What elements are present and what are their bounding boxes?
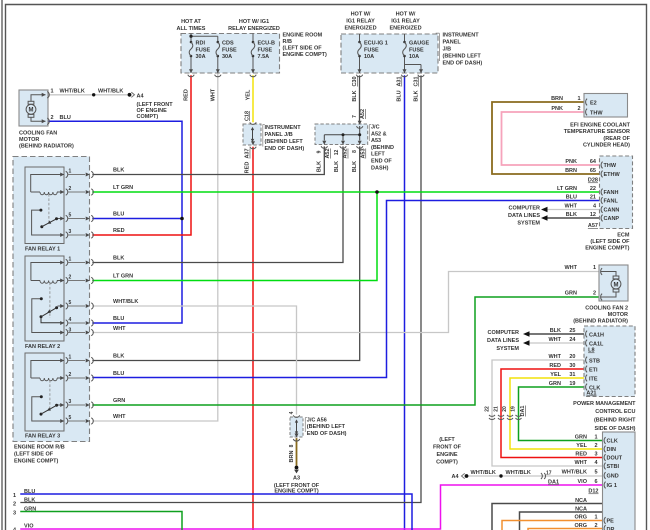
wire BLK CA1H stub bbox=[530, 333, 584, 335]
svg-text:A52: A52 bbox=[325, 148, 331, 158]
svg-text:FAN RELAY 2: FAN RELAY 2 bbox=[25, 344, 60, 350]
svg-text:D28: D28 bbox=[588, 178, 598, 184]
svg-text:1: 1 bbox=[594, 434, 597, 440]
svg-text:ETI: ETI bbox=[589, 367, 598, 373]
svg-text:WHT: WHT bbox=[113, 414, 126, 420]
junction connector A56 bbox=[290, 415, 347, 441]
connector A4 bottom with WHT/BLK bbox=[451, 470, 559, 486]
svg-text:1: 1 bbox=[51, 89, 54, 95]
svg-text:A31: A31 bbox=[397, 76, 403, 86]
wire PNK sensor THW to ECM THW bbox=[502, 112, 601, 165]
wire BLK NCA row upper bbox=[492, 504, 603, 530]
wire BLK J/C pin8 to fan relay3 pin1 bbox=[93, 147, 360, 361]
svg-text:RED: RED bbox=[113, 228, 125, 234]
svg-text:ENERGIZED: ENERGIZED bbox=[389, 26, 421, 32]
svg-text:8: 8 bbox=[289, 444, 295, 447]
wire RED RDI fuse to fan relay1 pin3 bbox=[93, 76, 191, 235]
wire WHT/BLK A4 to GND pin5 bbox=[469, 475, 603, 477]
svg-text:BLU: BLU bbox=[566, 195, 577, 201]
svg-text:64: 64 bbox=[590, 159, 597, 165]
svg-text:YEL: YEL bbox=[550, 372, 561, 378]
svg-text:30: 30 bbox=[569, 363, 575, 369]
wire BLU bottom row 1 bbox=[21, 494, 412, 530]
svg-text:A4: A4 bbox=[137, 94, 145, 100]
svg-text:3: 3 bbox=[69, 399, 72, 405]
svg-text:19: 19 bbox=[569, 381, 575, 387]
wire BLK J/C pin9 to fan relay1 pin1 bbox=[93, 147, 324, 175]
DA1 in-line connector breaks bbox=[485, 405, 527, 419]
svg-text:10A: 10A bbox=[409, 54, 419, 60]
svg-text:2: 2 bbox=[69, 372, 72, 378]
svg-text:21: 21 bbox=[590, 195, 596, 201]
svg-text:1: 1 bbox=[69, 354, 72, 360]
svg-text:NCA: NCA bbox=[575, 498, 587, 504]
wire BLU A31 gauge fuse down off page bbox=[404, 76, 406, 530]
fuse ECU-B 7.5A bbox=[250, 34, 275, 77]
wire BLK ECU-IG1 fuse to J/C A52 pin7 bbox=[359, 76, 361, 122]
svg-text:WHT/BLK: WHT/BLK bbox=[506, 470, 531, 476]
svg-text:CANP: CANP bbox=[604, 216, 620, 222]
splice on WHT/BLK bbox=[92, 93, 95, 96]
svg-text:END OF DASH): END OF DASH) bbox=[265, 146, 305, 152]
svg-text:5: 5 bbox=[69, 212, 72, 218]
svg-text:31: 31 bbox=[569, 372, 575, 378]
svg-text:COMPT): COMPT) bbox=[137, 114, 159, 120]
svg-text:THW: THW bbox=[590, 110, 603, 116]
svg-text:(LEFT SIDE OF: (LEFT SIDE OF bbox=[590, 239, 630, 245]
svg-text:DOUT: DOUT bbox=[607, 456, 623, 462]
wire RED ETI to DOUT bbox=[501, 369, 603, 458]
svg-text:STBI: STBI bbox=[607, 464, 620, 470]
engine room R/B relay box bbox=[13, 157, 90, 465]
svg-text:24: 24 bbox=[569, 337, 576, 343]
wire BLU FANL: ECM pin21 to relay3 pin2 bbox=[93, 201, 600, 378]
svg-text:FUSE: FUSE bbox=[364, 47, 379, 53]
svg-text:FUSE: FUSE bbox=[222, 47, 237, 53]
svg-text:20: 20 bbox=[569, 354, 575, 360]
svg-text:(LEFT FRONT: (LEFT FRONT bbox=[137, 102, 174, 108]
svg-text:ENERGIZED: ENERGIZED bbox=[344, 26, 376, 32]
wire WHT/BLK relay2 pin5 to J/C A56 bbox=[93, 306, 297, 414]
svg-text:30A: 30A bbox=[196, 54, 206, 60]
svg-text:RED: RED bbox=[245, 162, 251, 174]
svg-text:IG 1: IG 1 bbox=[607, 483, 617, 489]
svg-text:CONTROL ECU: CONTROL ECU bbox=[595, 409, 635, 415]
svg-text:RED: RED bbox=[184, 89, 190, 101]
svg-text:ITE: ITE bbox=[589, 376, 598, 382]
ECM box bbox=[585, 156, 632, 252]
svg-text:1: 1 bbox=[594, 514, 597, 520]
svg-text:OF ENGINE: OF ENGINE bbox=[137, 108, 168, 114]
svg-text:(BEHIND LEFT: (BEHIND LEFT bbox=[443, 53, 482, 59]
svg-text:FANL: FANL bbox=[604, 199, 619, 205]
svg-text:PANEL J/B: PANEL J/B bbox=[265, 132, 293, 138]
junction dot green main / relay2 branch bbox=[375, 190, 379, 194]
svg-text:FAN RELAY 3: FAN RELAY 3 bbox=[25, 434, 60, 440]
svg-text:GRN: GRN bbox=[565, 291, 577, 297]
svg-text:2: 2 bbox=[69, 274, 72, 280]
svg-text:DATA LINES: DATA LINES bbox=[508, 213, 540, 219]
svg-text:3: 3 bbox=[594, 451, 597, 457]
svg-text:1: 1 bbox=[577, 96, 580, 102]
svg-text:22: 22 bbox=[485, 406, 491, 412]
svg-text:8: 8 bbox=[352, 150, 358, 153]
svg-text:E2: E2 bbox=[590, 100, 597, 106]
svg-text:ORG: ORG bbox=[574, 514, 587, 520]
svg-text:19: 19 bbox=[511, 406, 517, 412]
svg-text:7: 7 bbox=[352, 115, 358, 118]
power management control ECU box bbox=[573, 326, 636, 432]
svg-text:PNK: PNK bbox=[565, 159, 577, 165]
svg-text:A52: A52 bbox=[360, 109, 366, 119]
svg-text:CA1L: CA1L bbox=[589, 341, 604, 347]
svg-text:TEMPERATURE SENSOR: TEMPERATURE SENSOR bbox=[564, 129, 630, 135]
svg-text:THW: THW bbox=[604, 163, 617, 169]
wire WHT CDS fuse to fan relay3 pin5 bbox=[93, 73, 218, 421]
svg-text:2: 2 bbox=[69, 186, 72, 192]
svg-text:WHT: WHT bbox=[564, 265, 577, 271]
svg-text:ECM: ECM bbox=[617, 233, 630, 239]
computer data lines system (ECM) bbox=[508, 205, 547, 226]
svg-text:ENGINE COMPT): ENGINE COMPT) bbox=[14, 458, 58, 464]
svg-text:COMPUTER: COMPUTER bbox=[488, 330, 520, 336]
svg-text:ENGINE COMPT): ENGINE COMPT) bbox=[283, 52, 327, 58]
svg-text:ENGINE ROOM R/B: ENGINE ROOM R/B bbox=[14, 444, 65, 450]
wire RED A37 down off page bbox=[252, 148, 254, 530]
svg-text:BLK: BLK bbox=[550, 328, 561, 334]
svg-text:WHT/BLK: WHT/BLK bbox=[471, 470, 496, 476]
svg-text:YEL: YEL bbox=[246, 89, 252, 100]
fuse GAUGE 10A bbox=[401, 34, 429, 77]
svg-text:WHT: WHT bbox=[564, 204, 577, 210]
svg-text:ETHW: ETHW bbox=[604, 172, 621, 178]
svg-text:ENGINE COMPT): ENGINE COMPT) bbox=[274, 489, 318, 495]
svg-text:BLK: BLK bbox=[566, 212, 577, 218]
svg-text:10A: 10A bbox=[364, 54, 374, 60]
svg-text:2: 2 bbox=[51, 115, 54, 121]
wire WHT relay2 pin3 to cooling fan2 motor pin1 bbox=[93, 272, 599, 333]
svg-text:IG1 RELAY: IG1 RELAY bbox=[391, 19, 420, 25]
svg-text:DIN: DIN bbox=[607, 447, 617, 453]
fan relay 2 bbox=[25, 256, 93, 350]
svg-text:LT GRN: LT GRN bbox=[557, 186, 577, 192]
svg-text:DATA LINES: DATA LINES bbox=[487, 338, 519, 344]
svg-text:(BEHIND RIGHT: (BEHIND RIGHT bbox=[594, 418, 636, 424]
wire BLK NCA row lower bbox=[520, 512, 603, 530]
svg-text:ALL TIMES: ALL TIMES bbox=[177, 26, 206, 32]
svg-text:CYLINDER HEAD): CYLINDER HEAD) bbox=[583, 143, 630, 149]
svg-text:J/C A56: J/C A56 bbox=[307, 418, 327, 424]
svg-text:BRN: BRN bbox=[289, 451, 295, 463]
svg-text:C18: C18 bbox=[244, 111, 250, 121]
svg-text:FAN RELAY 1: FAN RELAY 1 bbox=[25, 247, 60, 253]
svg-text:VIO: VIO bbox=[24, 524, 34, 530]
svg-text:INSTRUMENT: INSTRUMENT bbox=[265, 125, 302, 131]
fuse ECU-IG 1 10A bbox=[356, 34, 388, 77]
svg-text:END OF: END OF bbox=[371, 159, 392, 165]
svg-text:ORG: ORG bbox=[574, 523, 587, 529]
svg-text:HOT W/ IG1: HOT W/ IG1 bbox=[239, 19, 269, 25]
wire BRN J/C A56 to A3 ground bbox=[296, 439, 298, 465]
svg-text:WHT/BLK: WHT/BLK bbox=[60, 89, 85, 95]
svg-text:9: 9 bbox=[317, 150, 323, 153]
svg-text:GRN: GRN bbox=[549, 381, 561, 387]
svg-text:DA1: DA1 bbox=[548, 480, 559, 486]
svg-text:17: 17 bbox=[546, 471, 552, 477]
svg-text:25: 25 bbox=[569, 328, 575, 334]
svg-text:WHT: WHT bbox=[113, 326, 126, 332]
svg-text:WHT: WHT bbox=[548, 354, 561, 360]
svg-text:MOTOR: MOTOR bbox=[19, 137, 39, 143]
svg-text:1: 1 bbox=[69, 256, 72, 262]
connector A4 top bbox=[128, 92, 135, 97]
svg-text:2: 2 bbox=[577, 106, 580, 112]
svg-text:RELAY ENERGIZED: RELAY ENERGIZED bbox=[228, 26, 280, 32]
svg-text:BLK: BLK bbox=[317, 161, 323, 172]
svg-text:FUSE: FUSE bbox=[196, 47, 211, 53]
svg-text:BLK: BLK bbox=[334, 161, 340, 172]
svg-text:BLU: BLU bbox=[113, 371, 124, 377]
svg-text:CDS: CDS bbox=[222, 41, 234, 47]
svg-text:BRN: BRN bbox=[551, 96, 563, 102]
svg-text:CA1H: CA1H bbox=[589, 332, 604, 338]
svg-text:FUSE: FUSE bbox=[409, 47, 424, 53]
svg-text:A57: A57 bbox=[588, 223, 598, 229]
svg-text:A37: A37 bbox=[245, 148, 251, 158]
svg-text:R/B: R/B bbox=[283, 39, 293, 45]
svg-text:PE: PE bbox=[607, 519, 615, 525]
wire LT GRN main: relay1 pin2 to ECM FANH bbox=[93, 191, 600, 193]
svg-text:A52: A52 bbox=[343, 148, 349, 158]
wire BLU motor pin2 to junction to relay1 pin5 and relay2 pin4 bbox=[48, 121, 182, 323]
svg-text:WHT/BLK: WHT/BLK bbox=[98, 89, 123, 95]
cooling fan motor M1 bbox=[19, 89, 74, 150]
svg-text:STB: STB bbox=[589, 358, 600, 364]
svg-text:BLU: BLU bbox=[60, 115, 71, 121]
junction dot blue motor/relay1 pin5/relay2 pin4 bbox=[180, 217, 184, 221]
svg-text:GRN: GRN bbox=[113, 398, 125, 404]
svg-text:3: 3 bbox=[69, 327, 72, 333]
ground point A3 bbox=[294, 466, 299, 474]
svg-text:VIO: VIO bbox=[578, 479, 588, 485]
svg-text:IG1 RELAY: IG1 RELAY bbox=[346, 19, 375, 25]
fan relay 1 bbox=[25, 167, 93, 253]
svg-text:INSTRUMENT: INSTRUMENT bbox=[443, 32, 480, 38]
svg-text:4: 4 bbox=[69, 317, 72, 323]
svg-text:FUSE: FUSE bbox=[258, 47, 273, 53]
svg-text:2: 2 bbox=[594, 443, 597, 449]
svg-text:HOT W/: HOT W/ bbox=[351, 12, 371, 18]
svg-text:LT GRN: LT GRN bbox=[113, 185, 133, 191]
engine room R/B fuse block box bbox=[177, 19, 327, 73]
svg-text:GND: GND bbox=[607, 474, 619, 480]
svg-text:BLK: BLK bbox=[113, 168, 124, 174]
svg-text:COMPUTER: COMPUTER bbox=[509, 205, 541, 211]
svg-text:A53: A53 bbox=[371, 138, 381, 144]
wire BLK C31 gauge fuse to bottom row 2 bbox=[21, 76, 421, 503]
fuse RDI 30A bbox=[188, 34, 218, 77]
wire BRN sensor E2 to ECM ETHW bbox=[492, 102, 600, 174]
svg-text:SYSTEM: SYSTEM bbox=[517, 221, 540, 227]
svg-text:(BEHIND: (BEHIND bbox=[371, 145, 394, 151]
svg-text:SIDE OF DASH): SIDE OF DASH) bbox=[595, 426, 636, 432]
EFI engine coolant temperature sensor bbox=[564, 94, 631, 149]
svg-text:END OF DASH): END OF DASH) bbox=[443, 60, 483, 66]
wire WHT STB to STBI bbox=[492, 360, 603, 466]
svg-text:PNK: PNK bbox=[551, 106, 563, 112]
svg-text:DASH): DASH) bbox=[371, 165, 389, 171]
svg-text:HOT W/: HOT W/ bbox=[396, 12, 416, 18]
svg-text:PANEL: PANEL bbox=[443, 39, 462, 45]
svg-text:END OF DASH): END OF DASH) bbox=[307, 431, 347, 437]
svg-text:J/C: J/C bbox=[371, 125, 380, 131]
svg-text:2: 2 bbox=[594, 523, 597, 529]
svg-text:65: 65 bbox=[590, 168, 596, 174]
svg-text:(LEFT SIDE OF: (LEFT SIDE OF bbox=[283, 46, 323, 52]
svg-text:ENGINE ROOM: ENGINE ROOM bbox=[283, 32, 323, 38]
svg-text:C30: C30 bbox=[352, 76, 358, 86]
cooling fan 2 motor bbox=[573, 265, 628, 325]
svg-text:POWER MANAGEMENT: POWER MANAGEMENT bbox=[573, 401, 636, 407]
wire GRN bottom row 3 bbox=[21, 512, 182, 530]
svg-text:A53: A53 bbox=[361, 148, 367, 158]
wire ORG 2 bbox=[528, 529, 603, 530]
svg-text:BLU: BLU bbox=[113, 316, 124, 322]
svg-text:A3: A3 bbox=[293, 476, 300, 482]
svg-text:1: 1 bbox=[69, 168, 72, 174]
svg-text:WHT: WHT bbox=[548, 337, 561, 343]
fuse CDS 30A bbox=[215, 41, 237, 77]
svg-text:BLK: BLK bbox=[113, 256, 124, 262]
svg-text:5: 5 bbox=[69, 415, 72, 421]
svg-text:3: 3 bbox=[13, 511, 16, 517]
wire BLK J/C pin12 to fan relay2 pin1 bbox=[93, 147, 343, 263]
svg-text:20: 20 bbox=[502, 406, 508, 412]
svg-text:7.5A: 7.5A bbox=[258, 54, 270, 60]
svg-text:BLU: BLU bbox=[397, 90, 403, 101]
svg-text:5: 5 bbox=[594, 469, 597, 475]
svg-text:(BEHIND RADIATOR): (BEHIND RADIATOR) bbox=[573, 319, 628, 325]
svg-text:ECU-B: ECU-B bbox=[258, 41, 275, 47]
svg-text:D12: D12 bbox=[588, 489, 598, 495]
wire YEL ECU-B fuse to instrument panel J/B C18 bbox=[252, 76, 254, 122]
svg-text:22: 22 bbox=[590, 186, 596, 192]
svg-text:12: 12 bbox=[590, 212, 596, 218]
svg-text:FRONT OF: FRONT OF bbox=[433, 445, 462, 451]
svg-text:5: 5 bbox=[69, 300, 72, 306]
wire GRN relay3 pin3 to cooling fan2 motor pin2 bbox=[93, 297, 599, 405]
svg-text:2: 2 bbox=[593, 291, 596, 297]
wire WHT CANN stub bbox=[547, 209, 600, 211]
wire GRN CLK to CLK bbox=[519, 387, 603, 441]
instrument panel J/B pass-through bbox=[243, 122, 304, 152]
wire LT GRN relay2 pin2 branch bbox=[93, 192, 377, 281]
svg-text:BLU: BLU bbox=[113, 212, 124, 218]
svg-text:4: 4 bbox=[289, 411, 295, 414]
fan relay 3 bbox=[25, 353, 93, 440]
wire ORG 1 bbox=[502, 521, 603, 530]
computer data lines system (PM ECU) bbox=[487, 330, 529, 352]
svg-text:BLK: BLK bbox=[413, 90, 419, 101]
svg-text:1: 1 bbox=[593, 265, 596, 271]
svg-text:ENGINE: ENGINE bbox=[436, 452, 457, 458]
svg-text:2: 2 bbox=[13, 502, 16, 508]
svg-text:30A: 30A bbox=[222, 54, 232, 60]
svg-text:ENGINE COMPT): ENGINE COMPT) bbox=[585, 246, 629, 252]
svg-text:(LEFT: (LEFT bbox=[439, 437, 455, 443]
svg-text:HOT AT: HOT AT bbox=[181, 19, 201, 25]
svg-text:YEL: YEL bbox=[576, 443, 587, 449]
wire YEL ITE to DIN bbox=[510, 378, 603, 449]
svg-text:BLK: BLK bbox=[113, 354, 124, 360]
svg-text:A4: A4 bbox=[451, 474, 459, 480]
svg-text:(LEFT SIDE OF: (LEFT SIDE OF bbox=[14, 451, 54, 457]
svg-text:GAUGE: GAUGE bbox=[409, 41, 430, 47]
svg-text:(BEHIND RADIATOR): (BEHIND RADIATOR) bbox=[19, 143, 74, 149]
svg-text:3: 3 bbox=[69, 229, 72, 235]
svg-text:WHT: WHT bbox=[210, 88, 216, 101]
svg-text:(BEHIND LEFT: (BEHIND LEFT bbox=[307, 424, 346, 430]
wire WHT CA1L stub bbox=[530, 342, 584, 344]
svg-text:FANH: FANH bbox=[604, 190, 619, 196]
svg-text:BRN: BRN bbox=[565, 168, 577, 174]
svg-text:BLU: BLU bbox=[24, 489, 35, 495]
svg-text:COMPT): COMPT) bbox=[436, 460, 458, 466]
svg-text:BLK: BLK bbox=[24, 497, 35, 503]
svg-text:C31: C31 bbox=[413, 76, 419, 86]
svg-text:A52 &: A52 & bbox=[371, 131, 387, 137]
svg-text:1: 1 bbox=[13, 493, 16, 499]
junction connector A52 A53 bbox=[315, 121, 394, 172]
svg-text:CLK: CLK bbox=[607, 439, 618, 445]
svg-text:EFI ENGINE COOLANT: EFI ENGINE COOLANT bbox=[570, 123, 631, 129]
svg-text:21: 21 bbox=[494, 406, 500, 412]
svg-text:DA1: DA1 bbox=[520, 405, 526, 416]
svg-text:CANN: CANN bbox=[604, 208, 620, 214]
svg-text:A21: A21 bbox=[586, 391, 596, 397]
svg-text:M: M bbox=[29, 108, 34, 114]
svg-text:12: 12 bbox=[334, 150, 340, 156]
svg-text:GRN: GRN bbox=[575, 434, 587, 440]
wire WHT/BLK cooling fan motor pin1 to A4 bbox=[48, 94, 128, 96]
svg-text:J/B: J/B bbox=[443, 46, 452, 52]
instrument panel J/B fuse box bbox=[341, 12, 482, 73]
svg-text:ECU-IG 1: ECU-IG 1 bbox=[364, 41, 388, 47]
svg-text:RDI: RDI bbox=[196, 41, 206, 47]
fan ECU connector box bbox=[603, 432, 636, 530]
svg-text:SYSTEM: SYSTEM bbox=[496, 346, 519, 352]
svg-text:COOLING FAN 2: COOLING FAN 2 bbox=[585, 306, 628, 312]
svg-text:WHT: WHT bbox=[574, 460, 587, 466]
svg-text:COOLING FAN: COOLING FAN bbox=[19, 130, 57, 136]
svg-text:(BEHIND LEFT: (BEHIND LEFT bbox=[265, 139, 304, 145]
svg-text:NCA: NCA bbox=[575, 506, 587, 512]
wire BLK CANP stub bbox=[547, 217, 600, 219]
svg-text:GRN: GRN bbox=[24, 506, 36, 512]
svg-text:BLK: BLK bbox=[352, 90, 358, 101]
svg-text:WHT/BLK: WHT/BLK bbox=[113, 299, 138, 305]
svg-text:WHT/BLK: WHT/BLK bbox=[562, 469, 587, 475]
svg-text:L8: L8 bbox=[588, 348, 594, 354]
svg-text:LEFT: LEFT bbox=[371, 152, 385, 158]
svg-text:(REAR OF: (REAR OF bbox=[603, 136, 630, 142]
wire VIO IG1 to bottom row 4 bbox=[21, 485, 603, 529]
svg-text:RED: RED bbox=[575, 451, 587, 457]
svg-text:M: M bbox=[614, 282, 619, 288]
svg-text:6: 6 bbox=[594, 479, 597, 485]
svg-text:RED: RED bbox=[549, 363, 561, 369]
svg-text:LT GRN: LT GRN bbox=[113, 274, 133, 280]
